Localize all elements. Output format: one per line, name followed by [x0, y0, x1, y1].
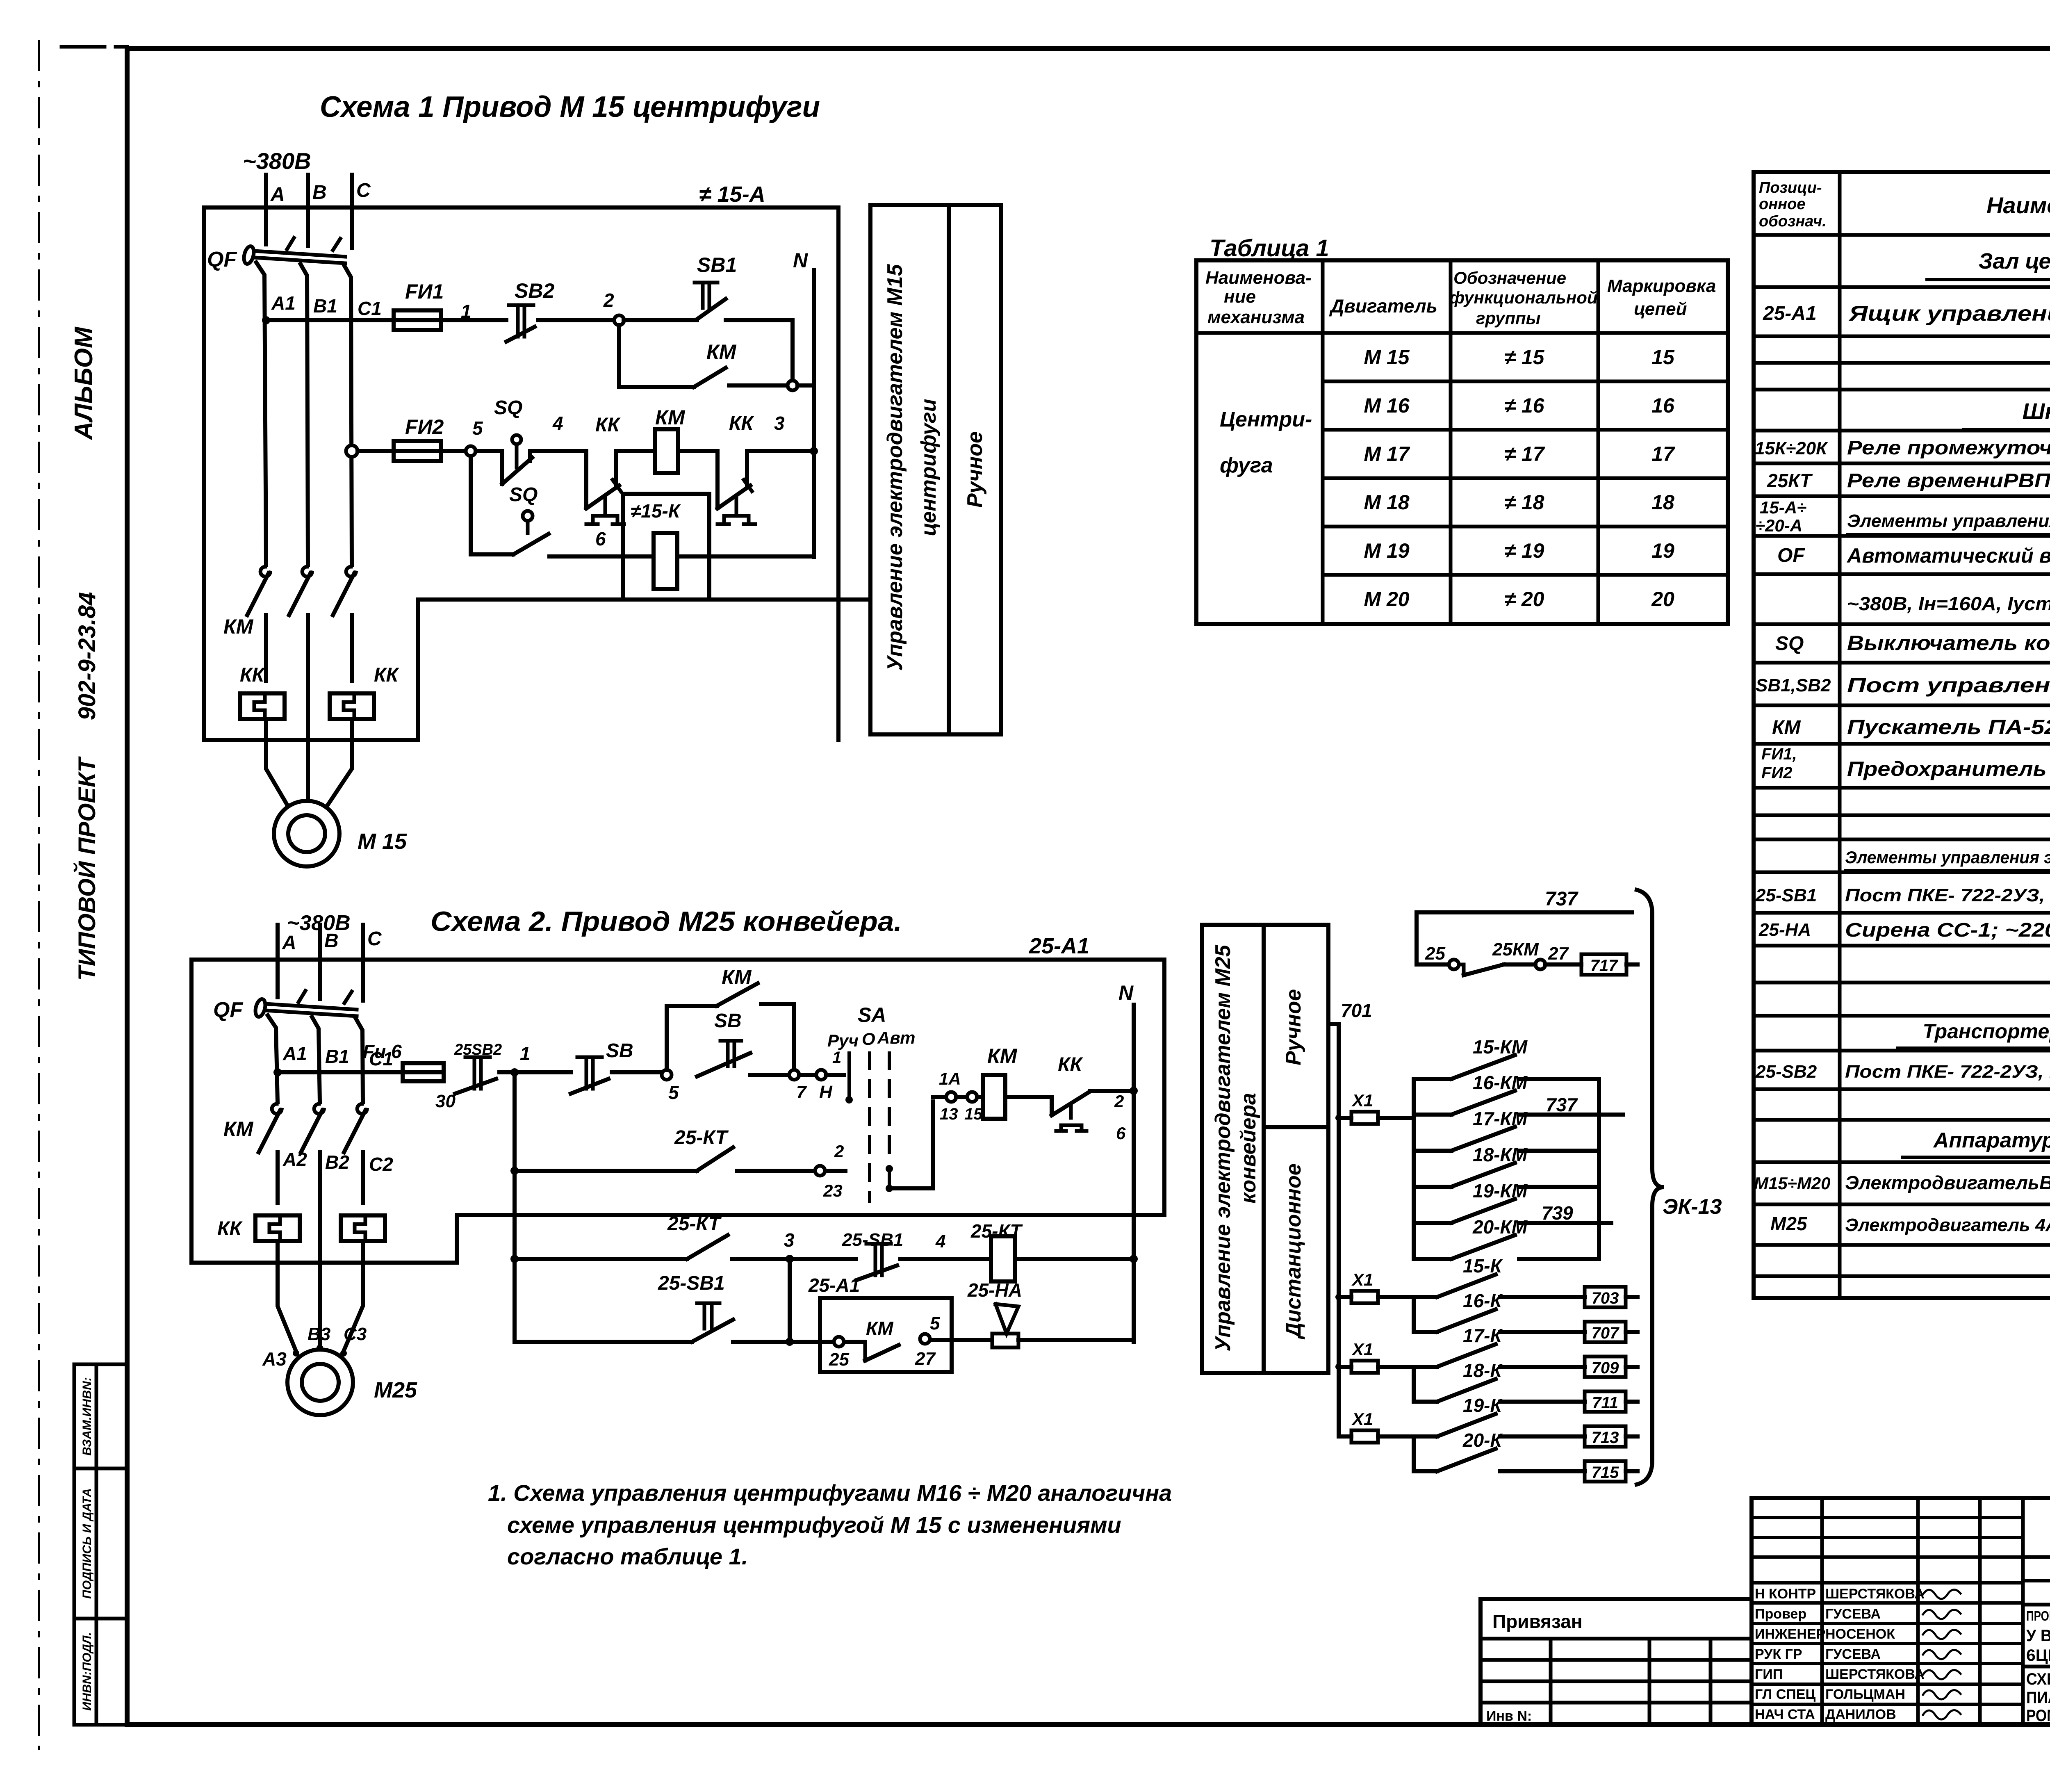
wire to node 2: [538, 318, 615, 322]
wire to node 5 (schema 2): [612, 1070, 662, 1074]
wire 1 to selector: [826, 1049, 844, 1075]
svg-text:1: 1: [832, 1049, 841, 1067]
node 7: [789, 1070, 807, 1102]
svg-text:ПРОИЗВОДСТВЕННО-ВСПОМОГАТЕЛЬНО: ПРОИЗВОДСТВЕННО-ВСПОМОГАТЕЛЬНОЕ ЗДАНИЕ С: [2026, 1608, 2050, 1623]
svg-text:Н: Н: [819, 1082, 833, 1102]
svg-text:Управление электродвигателем М: Управление электродвигателем М15: [883, 264, 907, 670]
svg-text:25: 25: [829, 1350, 849, 1370]
phase C2 (schema 2): [363, 1152, 393, 1203]
wire 4 to 25-KT coil: [900, 1231, 989, 1259]
svg-text:цепей: цепей: [1634, 299, 1687, 319]
node 3 (schema 2): [784, 1229, 795, 1263]
rung 2: timing contact 25-KT: [515, 1127, 815, 1171]
svg-text:Предохранитель ПР-2М, пл.вст: Предохранитель ПР-2М, пл.вст.-6А: [1847, 757, 2050, 780]
svg-text:Пост ПКЕ- 722-2УЗ, 1з+1р, ТУ16: Пост ПКЕ- 722-2УЗ, 1з+1р, ТУ16-526,216-7…: [1845, 1062, 2050, 1082]
margin label ТИПОВОЙ ПРОЕКТ: [73, 756, 100, 981]
svg-text:С3: С3: [344, 1324, 367, 1344]
svg-text:27: 27: [915, 1349, 936, 1369]
svg-text:717: 717: [1590, 957, 1618, 975]
svg-text:709: 709: [1592, 1359, 1619, 1377]
svg-text:17: 17: [1651, 442, 1675, 465]
svg-text:1А: 1А: [939, 1069, 961, 1088]
svg-text:1: 1: [520, 1043, 531, 1064]
svg-text:М 15: М 15: [1364, 346, 1410, 369]
svg-text:18-КМ: 18-КМ: [1473, 1144, 1528, 1165]
wire rung 2 start: [358, 449, 394, 453]
svg-text:ГИП: ГИП: [1755, 1667, 1783, 1682]
band text: Ручное (schema 1): [963, 431, 987, 508]
parts row KM: [1772, 714, 2050, 739]
control band rectangle (schema 2): [1202, 925, 1328, 1373]
svg-text:N: N: [1118, 981, 1134, 1004]
signatures (squiggles): [1923, 1589, 1961, 1719]
svg-text:онное: онное: [1759, 196, 1805, 213]
wire KK to N (schema 2): [1090, 1087, 1138, 1095]
svg-text:25-НА: 25-НА: [967, 1279, 1022, 1301]
svg-text:Сирена СС-1; ~220В. ТУ16.539.: Сирена СС-1; ~220В. ТУ16.539.383-70: [1845, 919, 2050, 941]
svg-text:АЛЬБОМ: АЛЬБОМ: [70, 326, 98, 440]
svg-text:В2: В2: [325, 1151, 349, 1173]
motor leads M15: [266, 719, 352, 805]
pushbutton SB (start): [697, 1010, 750, 1076]
svg-text:15-А÷: 15-А÷: [1760, 498, 1806, 517]
band text: Ручное (schema 2): [1282, 989, 1305, 1065]
selector switch SA: [827, 1003, 916, 1202]
limit switch SQ (2): [509, 484, 549, 554]
band text: Дистанционное: [1282, 1163, 1305, 1339]
phase B2 (schema 2): [320, 1151, 349, 1314]
main contact KM phase B (schema 2): [301, 1104, 324, 1152]
svg-text:713: 713: [1592, 1429, 1619, 1447]
brace EK-13: [1637, 890, 1722, 1484]
parts row QF line 2: [1847, 590, 2050, 614]
section header: Аппаратура по месту: [1902, 1129, 2050, 1157]
heater KK phase C (schema 2): [341, 1215, 385, 1241]
phase C2 segment: [350, 615, 354, 681]
svg-text:Центри-: Центри-: [1220, 408, 1312, 431]
svg-text:Двигатель: Двигатель: [1329, 295, 1437, 317]
pushbutton SB (stop 2): [571, 1040, 633, 1094]
svg-text:711: 711: [1592, 1394, 1618, 1412]
svg-text:5: 5: [668, 1082, 679, 1103]
svg-text:Пост управления КУ 700/2: Пост управления КУ 700/2: [1847, 674, 2050, 697]
svg-text:М 17: М 17: [1364, 442, 1410, 465]
svg-text:≠ 18: ≠ 18: [1505, 491, 1544, 514]
remote element box #15-K: [623, 494, 709, 600]
svg-text:≠ 15: ≠ 15: [1505, 346, 1545, 369]
relay contact 20-К with wire marker 715: [1414, 1429, 1638, 1482]
svg-text:≠ 17: ≠ 17: [1505, 442, 1545, 465]
connector X1 (2): [1335, 1270, 1414, 1303]
terminal 2/23: [815, 1142, 845, 1200]
svg-text:15К÷20К: 15К÷20К: [1755, 438, 1828, 458]
parts row 25-A1: [1763, 302, 2050, 326]
svg-text:20-К: 20-К: [1462, 1429, 1503, 1451]
title block grid: [1752, 1498, 2050, 1724]
svg-text:ЭлектродвигательВАО-72-2; 30 к: ЭлектродвигательВАО-72-2; 30 кВт; ~380 В: [1845, 1172, 2050, 1193]
thermal contact KK (2): [717, 413, 755, 524]
svg-text:≠ 20: ≠ 20: [1505, 588, 1544, 611]
fuse FU1: [394, 280, 444, 330]
phase line C1 (schema 2): [356, 1019, 393, 1102]
section header: элементы управления М25: [1845, 848, 2050, 870]
siren 25-HA: [967, 1279, 1022, 1347]
phase bus C (schema 2): [363, 925, 382, 1001]
svg-text:23: 23: [823, 1181, 843, 1200]
bus 701: [1329, 1000, 1372, 1436]
relay contact 17-К with wire marker 709: [1414, 1325, 1638, 1377]
parts list table grid: [1754, 172, 2050, 1298]
svg-text:Провер: Провер: [1755, 1606, 1806, 1622]
relay contact 15-КМ: [1414, 1036, 1599, 1079]
svg-text:ПИАЛЬНАЯ УПРАВЛЕНИЯ КОНВЕЙЕ: ПИАЛЬНАЯ УПРАВЛЕНИЯ КОНВЕЙЕ: [2026, 1688, 2050, 1707]
wire 25-KT coil to N: [1015, 1255, 1138, 1263]
svg-text:согласно таблице 1.: согласно таблице 1.: [507, 1543, 748, 1569]
svg-text:ЭК-13: ЭК-13: [1663, 1195, 1722, 1219]
wire node 1: [441, 301, 506, 322]
svg-text:Таблица 1: Таблица 1: [1209, 235, 1329, 262]
pushbutton 25-SB1 (stop): [795, 1230, 903, 1280]
node 1 (schema 2): [499, 1043, 571, 1076]
wire node2 to SB1: [624, 318, 697, 322]
parts row 15K-20K: [1755, 436, 2050, 459]
relay contact 19-КМ: [1414, 1180, 1611, 1224]
svg-text:НАЧ СТА: НАЧ СТА: [1755, 1707, 1815, 1722]
connector X1 (1): [1335, 1091, 1414, 1124]
wire 6: [549, 528, 654, 556]
svg-text:РУК ГР: РУК ГР: [1755, 1646, 1802, 1662]
wire from enclosure bottom to 15-K box: [418, 600, 622, 740]
svg-text:ИНВN:ПОДЛ.: ИНВN:ПОДЛ.: [80, 1632, 94, 1711]
svg-text:ШЕРСТЯКОВА: ШЕРСТЯКОВА: [1825, 1586, 1925, 1602]
svg-text:18: 18: [1651, 491, 1674, 514]
control wire rung 1: [262, 316, 394, 324]
svg-text:ИНЖЕНЕР: ИНЖЕНЕР: [1755, 1626, 1825, 1642]
parts row QF line 1: [1777, 544, 2050, 567]
svg-text:В: В: [312, 182, 327, 203]
phase line A1 (schema 2): [268, 1015, 307, 1102]
svg-text:Зал центрифуг: Зал центрифуг: [1979, 249, 2050, 274]
seal ring junction to N: [729, 381, 814, 390]
fuse FU2: [394, 415, 444, 461]
svg-text:15: 15: [1651, 346, 1675, 369]
svg-text:схеме управления центрифугой: схеме управления центрифугой М 15 с изме…: [507, 1512, 1121, 1538]
svg-text:группы: группы: [1476, 308, 1541, 328]
svg-text:функциональной: функциональной: [1449, 288, 1598, 307]
svg-text:÷20-А: ÷20-А: [1756, 516, 1802, 535]
main contact KM phase A: [223, 567, 270, 638]
svg-text:27: 27: [1548, 944, 1569, 964]
node3 drop to rung 4: [786, 1259, 794, 1346]
neutral line N (schema 1): [793, 249, 814, 557]
svg-text:SВ1,SВ2: SВ1,SВ2: [1756, 675, 1831, 695]
parts row SQ: [1775, 627, 2050, 663]
svg-text:ние: ние: [1224, 287, 1256, 307]
wire SB1 down to seal ring: [726, 320, 793, 381]
rung 4 wire: [515, 1340, 692, 1344]
svg-text:6: 6: [1116, 1124, 1126, 1143]
svg-text:А: А: [282, 932, 296, 954]
svg-text:SВ1: SВ1: [697, 253, 737, 276]
main contact KM phase B: [289, 567, 312, 615]
svg-text:Х1: Х1: [1351, 1091, 1373, 1110]
svg-text:~380В: ~380В: [243, 148, 311, 174]
relay contact 20-КМ: [1414, 1216, 1599, 1259]
phase bus B (schema 2): [320, 925, 339, 999]
svg-text:19-К: 19-К: [1463, 1395, 1503, 1416]
schema 2 title: [430, 906, 902, 937]
svg-text:SQ: SQ: [1775, 633, 1804, 654]
svg-text:20: 20: [1651, 588, 1674, 611]
relay contact 16-К with wire marker 707: [1414, 1290, 1638, 1342]
svg-text:FИ1: FИ1: [405, 280, 444, 303]
contactor coil KM: [655, 406, 686, 473]
table 1 caption: [1209, 235, 1329, 262]
control rung 1 (schema 2): [273, 1068, 403, 1076]
svg-text:Схема 2. Привод М25 конвейе: Схема 2. Привод М25 конвейера.: [430, 906, 902, 937]
sheet title cell: [2026, 1670, 2050, 1725]
svg-text:16: 16: [1651, 394, 1675, 417]
svg-text:фуга: фуга: [1220, 454, 1273, 477]
svg-text:737: 737: [1546, 1094, 1578, 1115]
svg-text:центрифуги: центрифуги: [917, 399, 941, 536]
svg-text:4: 4: [552, 413, 563, 434]
enclosure #15-A box: [204, 207, 838, 740]
table 1 row М 16: [1364, 394, 1675, 417]
svg-text:С: С: [367, 928, 382, 950]
band text: управление электродвигателем М25 конвейера: [1211, 944, 1260, 1351]
svg-text:КМ: КМ: [866, 1318, 894, 1339]
table 1 column 1 entry: [1220, 408, 1312, 477]
svg-text:≠ 19: ≠ 19: [1505, 539, 1544, 562]
svg-text:ОF: ОF: [1777, 545, 1805, 566]
motor M25: [287, 1350, 417, 1415]
svg-text:≠ 16: ≠ 16: [1505, 394, 1545, 417]
node 5 (schema 2): [662, 1070, 679, 1103]
table 1 row М 20: [1364, 588, 1674, 611]
svg-text:17-КМ: 17-КМ: [1473, 1108, 1528, 1129]
svg-text:QF: QF: [213, 998, 243, 1022]
svg-text:25-А1: 25-А1: [808, 1274, 860, 1296]
wire 15-K coil to N: [677, 554, 814, 559]
rung 3: timing contact 25-KT (2): [515, 1213, 785, 1259]
svg-text:КМ: КМ: [655, 406, 686, 429]
svg-text:25КМ: 25КМ: [1492, 939, 1539, 960]
svg-text:Шкаф Ш: Шкаф Ш: [2023, 398, 2050, 424]
label #15-A: [699, 182, 765, 207]
svg-text:1: 1: [461, 301, 471, 322]
relay contact 19-К with wire marker 713: [1414, 1395, 1638, 1447]
svg-text:Реле промежуточное РПУ-1-365: Реле промежуточное РПУ-1-365, ~220В: [1847, 437, 2050, 459]
margin label АЛЬБОМ: [70, 326, 98, 440]
node 5: [466, 417, 483, 456]
svg-text:ГОЛЬЦМАН: ГОЛЬЦМАН: [1825, 1687, 1905, 1702]
svg-text:2: 2: [603, 290, 614, 311]
svg-text:25-КТ: 25-КТ: [674, 1127, 729, 1149]
svg-text:30: 30: [435, 1091, 456, 1111]
terminal 13: [939, 1069, 961, 1123]
svg-text:6ЦЕНТРИФУГАМИ ОГШ -352К- 03: 6ЦЕНТРИФУГАМИ ОГШ -352К- 03: [2026, 1646, 2050, 1664]
svg-text:КМ: КМ: [987, 1044, 1018, 1067]
pushbutton SB2 (stop): [506, 279, 554, 342]
left bus from node 1 down: [510, 1072, 519, 1342]
pushbutton 25SB2 (stop): [454, 1041, 502, 1094]
svg-text:С1: С1: [358, 298, 382, 319]
svg-text:КК: КК: [217, 1218, 243, 1240]
phase line B1: [301, 264, 337, 565]
svg-text:Транспортерная галерея: Транспортерная галерея: [1922, 1020, 2050, 1043]
table 1 row М 17: [1364, 442, 1675, 465]
svg-text:Х1: Х1: [1351, 1340, 1373, 1359]
parts row M25: [1770, 1207, 2050, 1235]
svg-text:Пост ПКЕ- 722-2УЗ, "1з+1р, ТУ: Пост ПКЕ- 722-2УЗ, "1з+1р, ТУ16-526.216-…: [1845, 885, 2050, 905]
time relay coil 25-KT: [970, 1220, 1023, 1281]
svg-text:25-SВ1: 25-SВ1: [1755, 885, 1817, 905]
svg-text:SВ2: SВ2: [515, 279, 554, 302]
svg-text:ПОДПИСЬ И ДАТА: ПОДПИСЬ И ДАТА: [80, 1488, 94, 1599]
pair rails of K contact group: [1412, 1297, 1416, 1471]
svg-text:≠ 15-А: ≠ 15-А: [699, 182, 765, 207]
svg-text:КМ: КМ: [223, 1117, 254, 1140]
svg-text:707: 707: [1592, 1324, 1619, 1342]
left margin stamp table: [74, 1364, 127, 1725]
parts row 25-SB2: [1755, 1054, 2050, 1088]
wire from selector to ring 13: [889, 1097, 947, 1188]
svg-text:Маркировка: Маркировка: [1607, 276, 1716, 296]
svg-text:О: О: [862, 1029, 875, 1049]
svg-text:Схема 1 Привод М 15 центр: Схема 1 Привод М 15 центрифуги: [320, 91, 820, 123]
svg-text:715: 715: [1592, 1464, 1619, 1482]
svg-text:М 20: М 20: [1364, 588, 1409, 611]
table 1 grid: [1196, 260, 1728, 624]
wire node 4: [530, 413, 586, 451]
title block signature names: [1755, 1586, 1925, 1722]
parts row 25-SB1: [1755, 876, 2050, 910]
section header: Транспортерная галерея: [1897, 1020, 2050, 1048]
auxiliary contact KM (seal-in): [694, 340, 737, 387]
svg-text:15: 15: [964, 1105, 983, 1123]
svg-text:737: 737: [1545, 888, 1578, 910]
phase bus B (schema 1): [308, 175, 327, 246]
svg-text:703: 703: [1592, 1289, 1619, 1307]
svg-text:ГЛ СПЕЦ: ГЛ СПЕЦ: [1755, 1687, 1815, 1702]
svg-text:17-К: 17-К: [1463, 1325, 1503, 1346]
svg-text:Выключатель конечный ВКМ-1-В: Выключатель конечный ВКМ-1-ВЗГ: [1847, 632, 2050, 654]
svg-text:А1: А1: [271, 292, 296, 314]
svg-text:SА: SА: [858, 1003, 886, 1026]
svg-text:КК: КК: [1058, 1054, 1084, 1076]
phase bus A (schema 1): [266, 175, 285, 244]
svg-text:701: 701: [1341, 1000, 1372, 1021]
wire node2 down to KM contact: [619, 325, 694, 387]
circuit breaker QF (schema 2): [213, 991, 357, 1022]
label ~380V (schema 1): [243, 148, 311, 174]
svg-text:С2: С2: [369, 1154, 393, 1175]
svg-text:М 15: М 15: [358, 829, 407, 854]
svg-text:2: 2: [834, 1142, 844, 1161]
svg-text:15-КМ: 15-КМ: [1473, 1036, 1528, 1058]
svg-text:Пускатель ПА-522:; ~380В, Т: Пускатель ПА-522:; ~380В, Т- 60А: [1847, 716, 2050, 739]
svg-text:25-А1: 25-А1: [1029, 934, 1089, 958]
svg-text:М25: М25: [374, 1378, 417, 1402]
wire KK to KM coil: [616, 449, 655, 453]
svg-text:Руч: Руч: [827, 1031, 859, 1050]
svg-text:КМ: КМ: [722, 966, 752, 989]
wire to siren: [952, 1338, 992, 1342]
svg-text:Автоматический выключатель А: Автоматический выключатель А3716Б: [1846, 544, 2050, 567]
svg-text:КМ: КМ: [1772, 717, 1801, 739]
parts table header: [1759, 179, 2050, 230]
fuse FU6: [363, 1041, 444, 1081]
svg-text:Управление электродвигателем М: Управление электродвигателем М25: [1211, 944, 1235, 1351]
svg-text:С: С: [356, 180, 371, 201]
svg-text:конвейера: конвейера: [1237, 1093, 1260, 1204]
svg-text:13: 13: [940, 1105, 958, 1123]
svg-text:НОСЕНОК: НОСЕНОК: [1825, 1626, 1895, 1642]
seal-in branch with KM contact (schema 2): [667, 966, 794, 1070]
relay contact 16-КМ: [1414, 1072, 1623, 1115]
label ~380V (schema 2): [287, 911, 351, 935]
band text: управление электродвигателем М15 центрифуги: [883, 264, 941, 670]
label 25-A1 (enclosure): [1029, 934, 1089, 958]
parts row FU1,FU2: [1761, 745, 2050, 782]
svg-text:Н КОНТР: Н КОНТР: [1755, 1586, 1816, 1602]
wire to KM coil (schema 2): [977, 1095, 983, 1099]
svg-text:механизма: механизма: [1207, 307, 1305, 327]
top-left dash marks: [61, 47, 174, 48]
svg-text:6: 6: [595, 528, 606, 549]
phase line C1: [344, 266, 382, 565]
wire marker box 717: [1581, 954, 1638, 975]
svg-text:15-К: 15-К: [1463, 1255, 1503, 1277]
svg-text:16-КМ: 16-КМ: [1473, 1072, 1528, 1093]
aux contact KM inside 25-A1: [829, 1313, 951, 1370]
note line 2: [507, 1512, 1121, 1538]
svg-text:Х1: Х1: [1351, 1270, 1373, 1289]
margin label 902-9-23.84: [74, 592, 100, 720]
svg-text:КК: КК: [729, 413, 755, 434]
connector X1 (3): [1335, 1340, 1414, 1373]
wire node 3 to N: [747, 413, 818, 455]
terminals 2 and 6: [1114, 1092, 1126, 1143]
heater element KK phase A: [240, 664, 285, 719]
parts row 25KT: [1767, 469, 2050, 492]
svg-text:А: А: [270, 184, 285, 205]
svg-text:19-КМ: 19-КМ: [1473, 1180, 1528, 1202]
terminal 15: [956, 1092, 983, 1123]
control band rectangle (schema 1): [870, 205, 1001, 734]
svg-text:Аппаратура по месту: Аппаратура по месту: [1933, 1129, 2050, 1152]
pushbutton SB1 (start): [695, 253, 737, 319]
svg-text:FИ2: FИ2: [405, 415, 444, 438]
motor leads M25: [262, 1241, 367, 1370]
svg-text:Элементы управления электродв: Элементы управления электродвигателем М2…: [1845, 848, 2050, 867]
svg-text:В1: В1: [325, 1046, 349, 1067]
svg-text:25-SВ2: 25-SВ2: [1755, 1062, 1817, 1082]
svg-text:19: 19: [1651, 539, 1674, 562]
svg-text:СХЕМА ЭЛЕКТРИЧЕСКАЯ ПРИНЦИ-: СХЕМА ЭЛЕКТРИЧЕСКАЯ ПРИНЦИ-: [2026, 1670, 2050, 1688]
thermal contact KK (1): [586, 414, 624, 524]
svg-text:SQ: SQ: [494, 397, 522, 419]
phase bus A (schema 2): [278, 925, 296, 997]
svg-text:КМ: КМ: [706, 340, 737, 363]
wire to 25-A1 box: [733, 1340, 834, 1344]
svg-text:Ручное: Ручное: [963, 431, 987, 508]
svg-text:В: В: [324, 930, 339, 952]
junction on C1 for rung 2: [346, 445, 358, 457]
svg-text:Fи 6: Fи 6: [363, 1041, 402, 1062]
note line 3: [507, 1543, 748, 1569]
